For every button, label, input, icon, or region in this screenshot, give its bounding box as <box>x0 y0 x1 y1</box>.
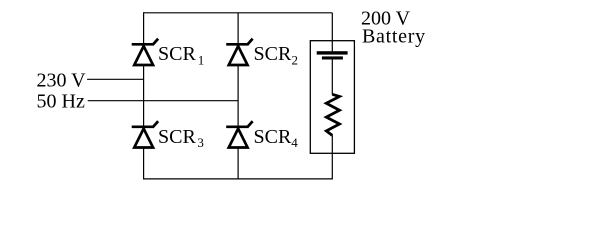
SCR3 thyristor <box>132 121 158 147</box>
wire left leg segments <box>143 12 145 179</box>
wire top bus <box>144 12 333 14</box>
SCR2 thyristor <box>226 39 252 65</box>
SCR4 thyristor <box>226 121 252 147</box>
wire middle leg segments <box>237 13 239 179</box>
svg-text:4: 4 <box>291 135 298 150</box>
wire bottom bus <box>144 178 333 180</box>
svg-text:230 V: 230 V <box>37 69 87 91</box>
svg-text:Battery: Battery <box>362 25 426 47</box>
svg-text:1: 1 <box>198 52 205 67</box>
battery B1 200V <box>317 51 348 59</box>
wire AC terminal 230V <box>87 78 144 80</box>
load box enclosure <box>310 41 354 154</box>
svg-text:SCR: SCR <box>158 43 196 65</box>
resistor load zigzag <box>326 94 339 135</box>
SCR1 thyristor <box>132 39 158 65</box>
svg-text:SCR: SCR <box>254 43 292 65</box>
wire AC terminal 50Hz <box>88 100 238 102</box>
svg-text:SCR: SCR <box>254 126 292 148</box>
svg-text:50 Hz: 50 Hz <box>37 90 85 112</box>
wire right leg segments <box>331 13 333 180</box>
svg-text:SCR: SCR <box>158 126 196 148</box>
svg-text:2: 2 <box>292 52 299 67</box>
svg-text:3: 3 <box>197 135 204 150</box>
